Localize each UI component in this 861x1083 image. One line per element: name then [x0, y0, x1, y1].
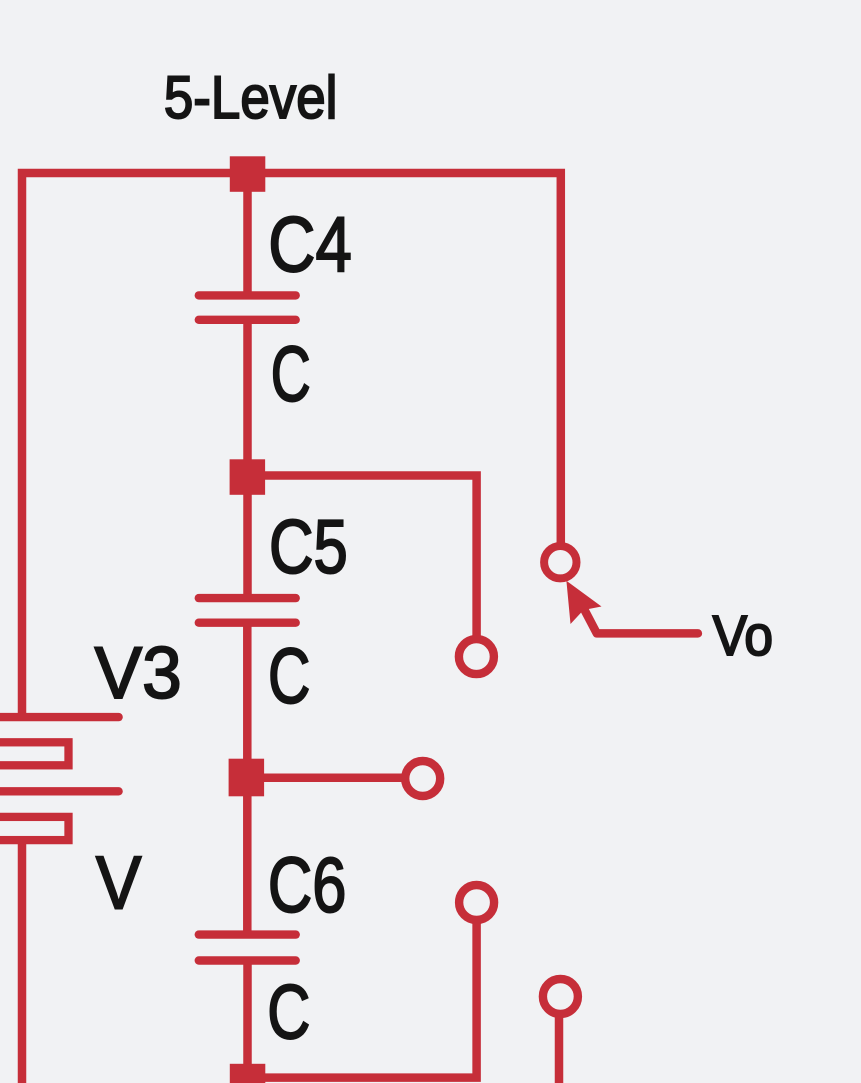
- svg-text:C: C: [267, 969, 310, 1055]
- svg-text:C5: C5: [269, 505, 348, 590]
- wire: left rail, top rail, right drop to output terminal: [22, 173, 561, 717]
- svg-text:C: C: [271, 330, 311, 418]
- wire: J3 to C6 top plate: [243, 778, 252, 937]
- wire: J2 right then down to terminal circle: [248, 476, 477, 642]
- terminal circle: bottom tap: [459, 885, 494, 920]
- svg-text:C4: C4: [268, 200, 352, 288]
- wire: J2 to C5 top plate: [243, 477, 252, 601]
- svg-text:V: V: [96, 841, 142, 925]
- wire: C4 bottom plate to J2: [243, 318, 252, 477]
- svg-text:V3: V3: [95, 633, 182, 714]
- terminal circle: C4/C5 tap: [459, 639, 494, 674]
- capacitor C4: [199, 295, 296, 319]
- wire: J3 right to terminal circle: [247, 774, 406, 783]
- svg-text:C6: C6: [268, 840, 347, 928]
- terminal circle: output node (top right): [544, 546, 576, 578]
- junction node J3 (C5 / C6 tap): [229, 759, 265, 797]
- terminal circle: lower right stub: [543, 979, 578, 1014]
- svg-text:5-Level: 5-Level: [164, 64, 338, 131]
- svg-text:Vo: Vo: [713, 604, 774, 667]
- wire: bottom rail from J4 right, up to terminal circle: [248, 921, 477, 1078]
- junction node J1 (top rail / C4): [230, 156, 265, 192]
- wire: stub below lower-right terminal circle: [555, 1013, 564, 1083]
- capacitor C6: [199, 935, 296, 961]
- junction node J2 (C4 / C5 tap): [230, 459, 266, 495]
- wire: battery bottom lead down: [18, 842, 27, 1083]
- junction node J4 (bottom rail, clipped): [230, 1064, 265, 1083]
- svg-text:C: C: [268, 631, 310, 719]
- wire: C5 bottom plate to J3: [243, 621, 252, 777]
- terminal circle: C5/C6 tap: [405, 761, 440, 796]
- battery V3 (clipped at left edge): [0, 717, 119, 840]
- Vo pointer arrow tail: [584, 608, 698, 633]
- wire: C6 bottom plate to J4 at bottom edge: [243, 958, 252, 1083]
- Vo pointer arrowhead: [566, 581, 601, 624]
- wire: lead J1 to C4 top plate: [243, 174, 252, 298]
- capacitor C5: [199, 598, 296, 623]
